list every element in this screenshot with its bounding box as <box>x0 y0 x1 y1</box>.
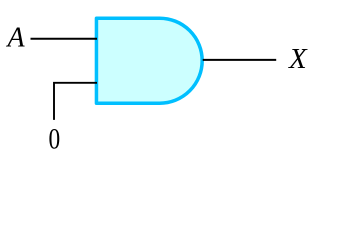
wire input 0 <box>54 83 97 120</box>
svg-text:X: X <box>288 43 308 75</box>
svg-text:0: 0 <box>49 122 61 155</box>
wire input A <box>31 38 98 40</box>
AND gate U1 <box>96 18 202 103</box>
wire output X <box>203 59 277 61</box>
svg-text:A: A <box>6 22 26 53</box>
